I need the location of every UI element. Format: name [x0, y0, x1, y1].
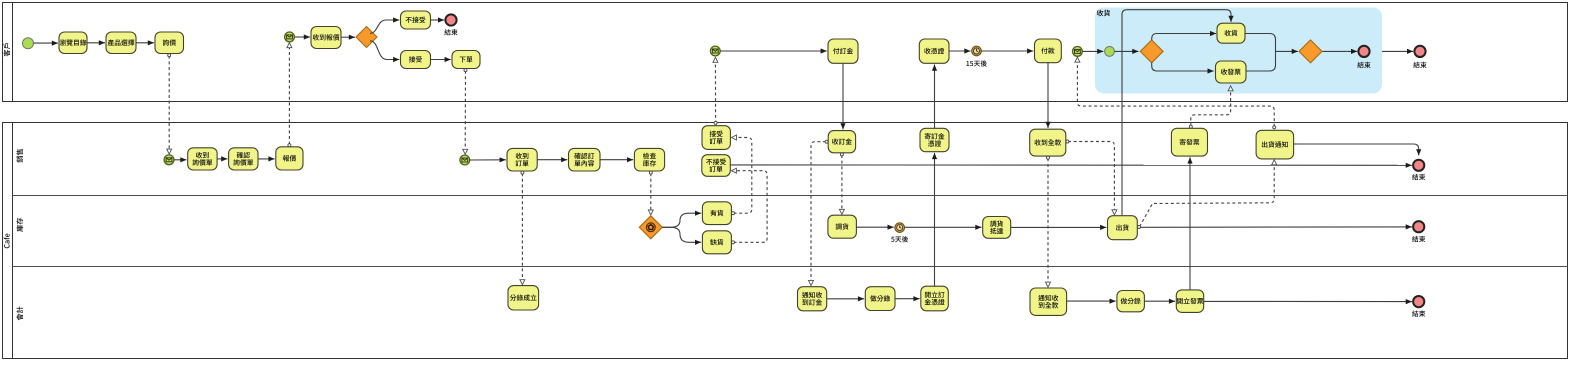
end event end2 — [1413, 46, 1426, 68]
task 出貨通知 — [1256, 130, 1294, 159]
message flow 收訂金->調貨 — [840, 153, 843, 214]
flow msgS2->收到訂單 — [470, 159, 506, 161]
task 缺貨 — [702, 231, 731, 254]
task 收發票 — [1216, 61, 1247, 83]
task 確認詢價單 — [229, 148, 258, 170]
task 接受 — [401, 51, 431, 69]
task 通知收到訂金 — [798, 287, 827, 311]
message flow 收到訂單->分錄成立 — [521, 171, 524, 284]
task 通知收到全款 — [1030, 288, 1067, 315]
flow start1->瀏覽目錄 — [34, 42, 59, 44]
lane 銷售 — [13, 149, 1569, 196]
task 付訂金 — [828, 39, 858, 63]
flow 收貨->sp_gw2 — [1245, 34, 1276, 52]
flow evgw->缺貨 — [662, 227, 701, 242]
flow 不接受->end1 — [431, 19, 445, 21]
message flow 收訂金->通知收到訂金 — [811, 140, 828, 285]
flow subprocess->end2 — [1382, 50, 1413, 52]
flow sp_gw2->sp_end — [1323, 50, 1358, 52]
task 不接受訂單 — [702, 155, 731, 177]
flow 調貨抵達->出貨 — [1011, 226, 1107, 228]
message flow 寄發票->收發票 — [1189, 86, 1230, 128]
task 寄發票 — [1171, 128, 1207, 156]
task 收貨T — [1217, 23, 1245, 43]
flow gw1->接受 — [370, 41, 399, 60]
flow 通知收到訂金->做分錄1 — [827, 298, 864, 300]
flow 確認訂單內容->檢查庫存 — [600, 159, 633, 161]
flow 開立訂金憑證->寄訂金憑證 — [934, 153, 936, 286]
message flow 下單->msgS2 — [464, 69, 467, 154]
subprocess 收貨 — [1095, 8, 1382, 94]
flow 付款->收到全款 — [1047, 63, 1049, 128]
task 收憑證 — [919, 39, 949, 63]
start event start1 — [23, 38, 34, 49]
flow 接受->下單 — [431, 59, 451, 61]
flow timer2->調貨抵達 — [905, 226, 982, 228]
task 產品選擇 — [106, 32, 136, 54]
timer event timer1 — [966, 46, 987, 66]
message event msg2 — [710, 46, 720, 56]
flow 產品選擇->詢價 — [136, 42, 154, 44]
flow 收到報價->gw1 — [341, 36, 355, 38]
task 出貨 — [1108, 216, 1138, 240]
task 付款 — [1035, 39, 1062, 63]
flow 瀏覽目錄->產品選擇 — [87, 42, 105, 44]
flow 出貨->收貨(top) — [1122, 10, 1231, 216]
flow msg3->sp_start — [1082, 50, 1103, 52]
message event msgS1 — [164, 155, 174, 165]
flow 不接受訂單->endS — [730, 164, 1412, 166]
flow 通知收到全款->做分錄2 — [1067, 300, 1116, 302]
message flow 報價->msg1 — [288, 43, 291, 147]
task 確認訂單內容 — [569, 148, 601, 171]
flow 出貨通知->endS(top) — [1294, 144, 1419, 155]
pool 客戶 — [3, 3, 1568, 102]
gateway sp_gw1 — [1140, 40, 1163, 63]
task 有貨 — [702, 202, 731, 225]
flow 開立發票->寄發票 — [1189, 157, 1191, 290]
gateway gw1 — [356, 27, 377, 48]
task 寄訂金憑證 — [920, 128, 949, 151]
pool Cafe — [3, 123, 1568, 359]
flow gw1->不接受 — [370, 20, 399, 33]
task 收到報價 — [311, 27, 341, 49]
flow 收到詢價單->確認詢價單 — [217, 158, 227, 160]
end event endI — [1412, 221, 1425, 242]
flow msgS1->收到詢價單 — [174, 159, 187, 161]
flow sp_gw1->收發票 — [1152, 63, 1214, 71]
flow msg2->付訂金 — [720, 50, 827, 52]
message event msgS2 — [460, 155, 470, 165]
flow 做分錄1->開立訂金憑證 — [895, 298, 920, 300]
flow 收到訂單->確認訂單內容 — [537, 159, 567, 161]
task 報價 — [276, 147, 303, 170]
flow 開立發票->endA — [1204, 300, 1412, 302]
end event end1 — [444, 14, 457, 35]
message flow 收到全款->出貨 — [1066, 140, 1115, 214]
task 收到訂單 — [507, 148, 537, 171]
end event endA — [1412, 296, 1425, 317]
end event sp_end — [1357, 46, 1370, 68]
message flow 詢價->msgS1 — [168, 54, 171, 154]
message event msg1 — [285, 32, 295, 42]
gateway evgw — [639, 216, 662, 239]
flow merge->sp_gw2 — [1276, 50, 1298, 52]
task 分錄成立 — [508, 286, 539, 310]
flow timer1->付款 — [981, 50, 1033, 52]
task 調貨抵達 — [983, 217, 1011, 239]
task 下單 — [452, 51, 480, 69]
task 接受訂單 — [702, 126, 730, 150]
timer event timer2 — [891, 223, 908, 243]
flow 出貨->endI — [1137, 226, 1412, 228]
message flow 出貨->出貨通知 — [1138, 160, 1275, 228]
task 開立發票 — [1176, 290, 1203, 313]
lane 會計 — [16, 306, 23, 320]
message event msg3 — [1073, 47, 1083, 57]
flow 調貨->timer2 — [856, 226, 893, 228]
gateway sp_gw2 — [1299, 40, 1322, 63]
message flow 收到全款->通知收到全款 — [1047, 156, 1050, 287]
flow evgw->有貨 — [662, 213, 701, 227]
task 調貨 — [828, 215, 857, 238]
task 收訂金 — [828, 131, 855, 153]
end event endS — [1412, 160, 1425, 180]
flow 收憑證->timer1 — [949, 50, 971, 52]
message flow 缺貨->不接受訂單 — [732, 171, 768, 244]
flow 確認詢價單->報價 — [258, 158, 275, 160]
message flow 檢查庫存->evgw — [649, 171, 652, 214]
flow 付訂金->收訂金 — [842, 63, 844, 129]
task 做分錄2 — [1117, 291, 1145, 312]
flow sp_gw1->收貨 — [1152, 34, 1217, 41]
lane 庫存 — [13, 218, 1569, 267]
message flow 接受訂單->msg2 — [714, 58, 717, 125]
task 開立訂金憑證 — [921, 286, 949, 311]
task 收到詢價單 — [188, 148, 217, 170]
task 詢價 — [155, 32, 184, 54]
task 收到全款 — [1030, 129, 1066, 156]
start event sp_start — [1105, 47, 1115, 57]
task 檢查庫存 — [634, 148, 664, 171]
message flow 有貨->接受訂單 — [732, 138, 752, 215]
flow 寄訂金憑證->收憑證 — [934, 65, 936, 129]
flow sp_start->sp_gw1 — [1114, 50, 1138, 52]
flow msg1->收到報價 — [294, 36, 310, 38]
flow 做分錄2->開立發票 — [1144, 300, 1175, 302]
flow 收發票->sp_gw2 — [1246, 51, 1276, 71]
task 做分錄1 — [865, 287, 895, 311]
message flow 出貨通知->msg3 — [1077, 58, 1275, 129]
task 瀏覽目錄 — [59, 32, 87, 54]
task 不接受 — [401, 11, 431, 29]
